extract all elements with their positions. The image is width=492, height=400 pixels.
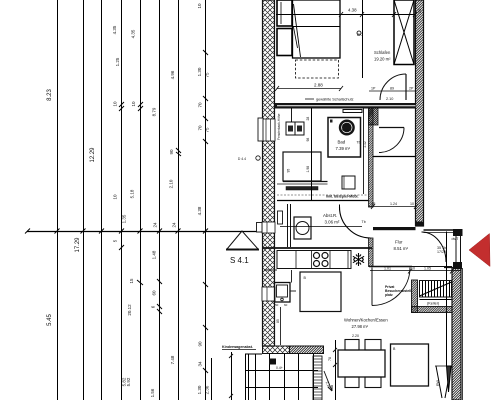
svg-text:platz: platz [385, 293, 393, 297]
svg-text:10: 10 [113, 101, 118, 107]
svg-text:Kinderwagenabst.: Kinderwagenabst. [222, 345, 253, 349]
svg-text:1.48: 1.48 [152, 250, 157, 259]
svg-text:Tb: Tb [362, 220, 366, 224]
svg-text:34: 34 [198, 361, 203, 367]
svg-text:3.06 m²: 3.06 m² [325, 220, 340, 225]
svg-text:17.29: 17.29 [75, 237, 81, 253]
svg-text:7.48: 7.48 [170, 355, 175, 364]
svg-text:inkl. Beispiel-Möbl.: inkl. Beispiel-Möbl. [326, 195, 359, 199]
svg-text:Bad: Bad [338, 140, 346, 145]
svg-text:90: 90 [198, 341, 203, 347]
svg-text:19.20 m²: 19.20 m² [374, 57, 391, 62]
svg-text:(Keller): (Keller) [427, 302, 440, 306]
svg-text:4.35: 4.35 [131, 29, 136, 38]
svg-text:10: 10 [197, 3, 202, 9]
svg-text:0.4+: 0.4+ [276, 366, 283, 370]
svg-text:D 4.4: D 4.4 [238, 157, 246, 161]
svg-text:1.24: 1.24 [390, 202, 397, 206]
svg-text:20.12: 20.12 [127, 304, 132, 316]
svg-text:1.56: 1.56 [150, 388, 155, 397]
svg-text:27.98 m²: 27.98 m² [352, 324, 369, 329]
svg-text:SK41: SK41 [342, 124, 350, 128]
svg-text:2P: 2P [409, 87, 414, 91]
svg-text:98: 98 [306, 138, 310, 142]
svg-text:78: 78 [328, 357, 332, 361]
svg-text:Flur: Flur [395, 240, 403, 245]
svg-text:7.39 m²: 7.39 m² [336, 146, 351, 151]
svg-text:1.30: 1.30 [197, 385, 202, 394]
svg-text:89: 89 [390, 87, 394, 91]
svg-text:20: 20 [418, 9, 422, 13]
svg-text:24: 24 [172, 222, 177, 228]
svg-text:5.45: 5.45 [47, 314, 53, 326]
svg-text:95: 95 [287, 169, 291, 173]
svg-text:2.10: 2.10 [169, 179, 174, 188]
svg-text:1P: 1P [371, 87, 376, 91]
svg-text:10: 10 [410, 202, 414, 206]
svg-text:Wohnen/Kochen/Essen: Wohnen/Kochen/Essen [344, 318, 388, 323]
svg-text:17/25: 17/25 [437, 250, 446, 254]
svg-text:5.18: 5.18 [130, 189, 135, 198]
svg-text:Schlafen: Schlafen [374, 50, 391, 55]
svg-text:4.35: 4.35 [112, 25, 117, 34]
svg-text:gewählte Schallschutz: gewählte Schallschutz [316, 98, 354, 102]
svg-text:60: 60 [152, 290, 157, 296]
svg-text:Fensterbank-Höhe: Fensterbank-Höhe [277, 113, 281, 140]
svg-text:24: 24 [153, 222, 158, 228]
svg-text:28: 28 [306, 117, 310, 121]
svg-text:15: 15 [129, 278, 134, 284]
svg-text:75: 75 [205, 72, 210, 78]
svg-text:70: 70 [198, 125, 203, 131]
svg-text:2.36: 2.36 [205, 385, 210, 394]
svg-text:4.96: 4.96 [170, 70, 175, 79]
svg-text:2.20: 2.20 [352, 334, 359, 338]
svg-text:10: 10 [131, 101, 136, 107]
svg-text:75: 75 [205, 127, 210, 133]
svg-text:1.01: 1.01 [384, 267, 391, 271]
svg-text:dwT: dwT [452, 237, 460, 241]
svg-text:2.88: 2.88 [314, 83, 323, 88]
svg-text:2K: 2K [357, 32, 362, 37]
svg-text:50: 50 [275, 303, 279, 307]
svg-text:RW: RW [436, 379, 440, 386]
svg-text:Abst.R.: Abst.R. [323, 213, 337, 218]
svg-text:85: 85 [276, 319, 280, 323]
svg-text:2.10: 2.10 [386, 97, 393, 101]
svg-text:Tb: Tb [357, 141, 361, 145]
svg-text:4.38: 4.38 [197, 206, 202, 215]
svg-text:5.92: 5.92 [126, 377, 131, 386]
svg-text:2.12: 2.12 [363, 141, 367, 147]
svg-text:70: 70 [198, 102, 203, 108]
svg-text:8.79: 8.79 [152, 107, 157, 116]
svg-text:S 4.1: S 4.1 [230, 256, 249, 265]
svg-text:4.38: 4.38 [348, 8, 357, 13]
svg-text:12.29: 12.29 [90, 147, 96, 163]
svg-text:1.05: 1.05 [424, 267, 431, 271]
svg-text:8.51 m²: 8.51 m² [394, 246, 409, 251]
svg-text:1.25: 1.25 [115, 57, 120, 66]
svg-text:10: 10 [113, 194, 118, 200]
svg-text:1.35: 1.35 [122, 214, 127, 223]
svg-text:60: 60 [284, 303, 288, 307]
svg-text:90: 90 [169, 149, 174, 155]
svg-text:1.30: 1.30 [197, 67, 202, 76]
svg-text:1.98: 1.98 [306, 166, 310, 173]
svg-text:8.23: 8.23 [47, 89, 53, 101]
svg-text:Lampe: Lampe [342, 128, 352, 132]
